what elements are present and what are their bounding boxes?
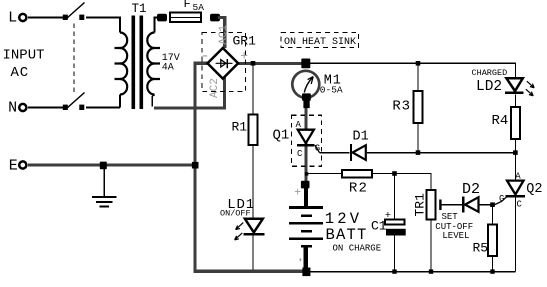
- svg-text:+: +: [294, 186, 301, 199]
- svg-text:CHARGED: CHARGED: [472, 68, 508, 78]
- svg-text:+: +: [240, 49, 248, 64]
- svg-text:R5: R5: [473, 241, 489, 256]
- svg-text:C: C: [297, 149, 303, 159]
- svg-text:E: E: [9, 158, 18, 175]
- svg-text:G: G: [499, 194, 504, 204]
- svg-text:N: N: [8, 100, 17, 117]
- svg-text:0-5A: 0-5A: [320, 85, 343, 96]
- svg-text:AC2: AC2: [209, 78, 221, 98]
- svg-text:GR1: GR1: [233, 34, 257, 49]
- svg-text:A: A: [515, 172, 521, 182]
- svg-text:R2: R2: [349, 180, 368, 196]
- svg-text:-: -: [201, 48, 210, 65]
- svg-text:R4: R4: [492, 113, 509, 129]
- svg-text:ON HEAT SINK: ON HEAT SINK: [284, 37, 356, 48]
- svg-text:D1: D1: [353, 130, 369, 145]
- svg-text:5A: 5A: [193, 2, 205, 13]
- svg-text:INPUT: INPUT: [3, 48, 45, 64]
- svg-text:LEVEL: LEVEL: [442, 231, 469, 241]
- svg-text:F: F: [184, 0, 191, 11]
- svg-text:T1: T1: [132, 2, 147, 16]
- svg-text:BATT: BATT: [326, 226, 368, 244]
- svg-text:Q2: Q2: [526, 182, 542, 197]
- svg-text:AC: AC: [11, 65, 29, 81]
- svg-text:ON CHARGE: ON CHARGE: [333, 244, 382, 254]
- svg-text:TR1: TR1: [413, 193, 428, 217]
- svg-text:R1: R1: [232, 120, 248, 135]
- svg-text:LD2: LD2: [476, 79, 502, 95]
- svg-text:AC1: AC1: [218, 24, 230, 44]
- svg-text:L: L: [8, 10, 17, 27]
- svg-text:C: C: [517, 200, 523, 210]
- svg-text:R3: R3: [392, 98, 410, 114]
- svg-text:G: G: [315, 143, 320, 153]
- svg-text:D2: D2: [462, 181, 480, 198]
- svg-text:+: +: [385, 210, 391, 222]
- svg-text:ON/OFF: ON/OFF: [220, 209, 251, 219]
- svg-text:Q1: Q1: [273, 128, 290, 144]
- svg-text:A: A: [296, 120, 302, 130]
- svg-text:SET: SET: [442, 212, 459, 222]
- svg-text:4A: 4A: [162, 63, 174, 74]
